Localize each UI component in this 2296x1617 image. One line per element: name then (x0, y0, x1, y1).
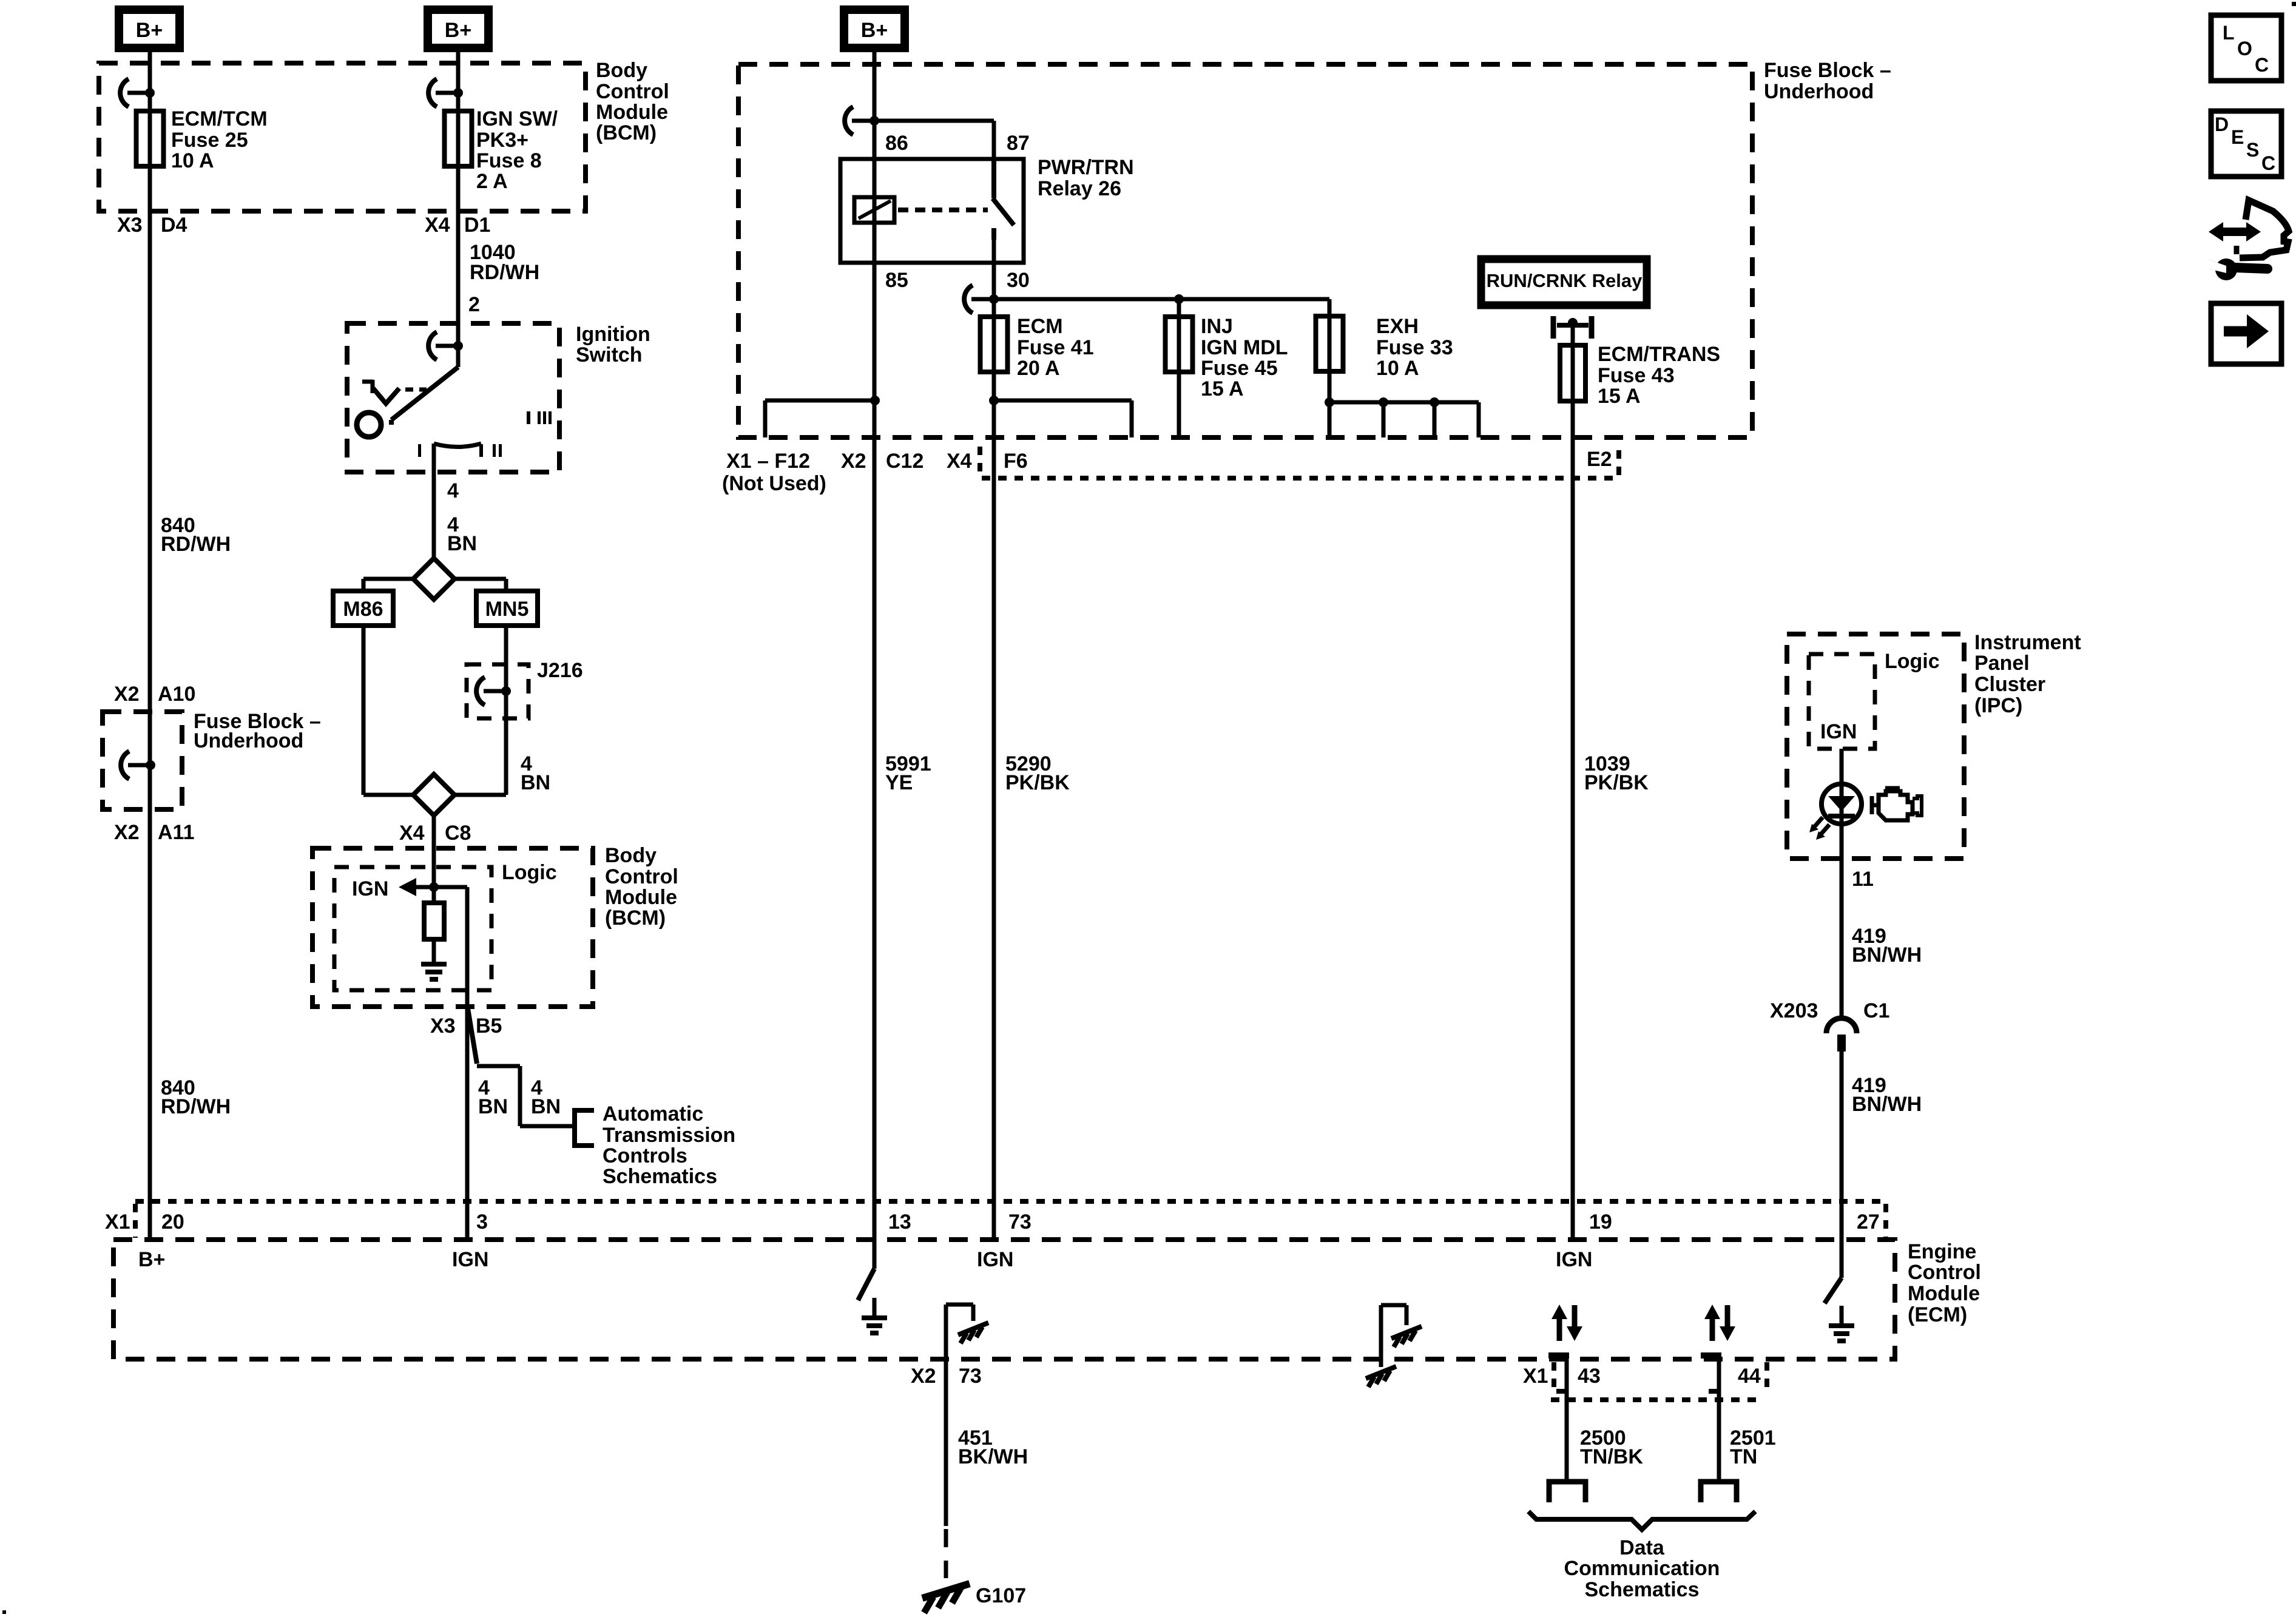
svg-text:Logic: Logic (502, 861, 557, 884)
svg-text:Control: Control (596, 80, 669, 103)
svg-text:EXH: EXH (1376, 315, 1419, 338)
svg-text:PWR/TRN: PWR/TRN (1038, 156, 1134, 179)
svg-text:10 A: 10 A (1376, 357, 1419, 380)
svg-text:10 A: 10 A (171, 149, 214, 172)
svg-text:B+: B+ (136, 19, 163, 42)
svg-text:Fuse 25: Fuse 25 (171, 129, 248, 152)
svg-text:RD/WH: RD/WH (161, 533, 231, 556)
svg-text:Underhood: Underhood (1764, 80, 1874, 103)
svg-text:IGN: IGN (977, 1248, 1013, 1271)
svg-text:X1 – F12: X1 – F12 (726, 450, 810, 473)
svg-text:E2: E2 (1587, 448, 1612, 471)
svg-text:Automatic: Automatic (603, 1102, 703, 1126)
svg-text:X203: X203 (1770, 999, 1818, 1022)
svg-text:TN: TN (1730, 1445, 1757, 1468)
svg-text:TN/BK: TN/BK (1580, 1445, 1643, 1468)
svg-text:20 A: 20 A (1017, 357, 1060, 380)
svg-text:2 A: 2 A (476, 170, 508, 193)
svg-text:Schematics: Schematics (603, 1165, 717, 1188)
svg-text:27: 27 (1857, 1210, 1880, 1234)
svg-text:X2: X2 (911, 1365, 936, 1388)
svg-text:2: 2 (468, 293, 480, 316)
svg-text:X2: X2 (841, 450, 866, 473)
svg-text:BK/WH: BK/WH (958, 1445, 1028, 1468)
svg-text:Ignition: Ignition (576, 323, 650, 346)
svg-text:Fuse 8: Fuse 8 (476, 149, 542, 172)
svg-text:43: 43 (1578, 1365, 1601, 1388)
svg-text:E: E (2231, 126, 2244, 148)
svg-text:BN: BN (478, 1095, 508, 1118)
svg-text:87: 87 (1007, 132, 1030, 155)
svg-text:73: 73 (959, 1365, 982, 1388)
svg-text:BN/WH: BN/WH (1852, 1093, 1922, 1116)
svg-text:BN: BN (521, 771, 550, 794)
svg-text:ECM: ECM (1017, 315, 1063, 338)
svg-text:S: S (2246, 139, 2259, 161)
svg-text:IGN MDL: IGN MDL (1201, 336, 1288, 359)
svg-text:X2: X2 (114, 821, 140, 844)
svg-text:D4: D4 (161, 214, 187, 237)
svg-text:(BCM): (BCM) (605, 906, 666, 930)
svg-text:L: L (2223, 22, 2235, 44)
svg-text:Module: Module (605, 886, 677, 909)
svg-text:Fuse Block –: Fuse Block – (1764, 59, 1891, 82)
svg-text:B+: B+ (861, 19, 888, 42)
svg-text:B5: B5 (476, 1014, 502, 1038)
svg-text:X4: X4 (947, 450, 972, 473)
svg-text:RD/WH: RD/WH (161, 1095, 231, 1118)
svg-text:Switch: Switch (576, 343, 643, 366)
svg-text:Panel: Panel (1974, 652, 2030, 675)
svg-text:Body: Body (605, 844, 657, 867)
svg-text:G107: G107 (976, 1584, 1026, 1607)
svg-text:Relay 26: Relay 26 (1038, 177, 1121, 200)
svg-text:YE: YE (885, 771, 913, 794)
svg-text:B+: B+ (445, 19, 471, 42)
svg-text:INJ: INJ (1201, 315, 1233, 338)
svg-text:(ECM): (ECM) (1908, 1303, 1967, 1326)
svg-text:Fuse 43: Fuse 43 (1598, 364, 1675, 387)
svg-text:11: 11 (1852, 868, 1874, 891)
svg-text:15 A: 15 A (1201, 377, 1244, 400)
svg-text:73: 73 (1008, 1210, 1032, 1234)
svg-text:IGN SW/: IGN SW/ (476, 107, 558, 130)
svg-text:D1: D1 (464, 214, 490, 237)
svg-text:Control: Control (605, 865, 678, 888)
svg-text:Engine: Engine (1908, 1240, 1976, 1263)
svg-text:(BCM): (BCM) (596, 121, 657, 144)
svg-text:Fuse 41: Fuse 41 (1017, 336, 1094, 359)
svg-text:X4: X4 (425, 214, 450, 237)
svg-text:X2: X2 (114, 683, 140, 706)
svg-text:C: C (2261, 152, 2275, 174)
svg-text:Transmission: Transmission (603, 1124, 735, 1147)
svg-text:13: 13 (888, 1210, 911, 1234)
svg-text:(Not Used): (Not Used) (722, 472, 826, 495)
svg-text:PK/BK: PK/BK (1005, 771, 1070, 794)
svg-text:MN5: MN5 (485, 598, 529, 621)
svg-text:Fuse 33: Fuse 33 (1376, 336, 1453, 359)
svg-text:85: 85 (885, 269, 908, 292)
svg-text:Underhood: Underhood (194, 729, 303, 752)
svg-text:B+: B+ (138, 1248, 165, 1271)
svg-text:Controls: Controls (603, 1144, 687, 1167)
svg-text:X1: X1 (105, 1210, 130, 1234)
svg-text:X3: X3 (117, 214, 143, 237)
svg-text:15 A: 15 A (1598, 385, 1641, 408)
svg-text:Schematics: Schematics (1585, 1578, 1700, 1601)
svg-text:X1: X1 (1523, 1365, 1548, 1388)
svg-text:4: 4 (447, 479, 459, 502)
svg-text:O: O (2237, 38, 2252, 59)
svg-text:C12: C12 (886, 450, 923, 473)
svg-text:RD/WH: RD/WH (470, 261, 539, 284)
svg-text:ECM/TRANS: ECM/TRANS (1598, 343, 1720, 366)
svg-text:D: D (2215, 113, 2229, 135)
svg-text:BN: BN (531, 1095, 561, 1118)
svg-text:A11: A11 (158, 821, 195, 844)
svg-text:X3: X3 (430, 1014, 456, 1038)
svg-text:Data: Data (1619, 1536, 1665, 1559)
svg-text:M86: M86 (343, 598, 383, 621)
svg-text:30: 30 (1007, 269, 1030, 292)
svg-text:Fuse 45: Fuse 45 (1201, 357, 1278, 380)
svg-text:PK3+: PK3+ (476, 129, 528, 152)
svg-text:IGN: IGN (352, 877, 388, 900)
svg-text:Cluster: Cluster (1974, 673, 2045, 696)
svg-text:3: 3 (476, 1210, 488, 1234)
svg-text:19: 19 (1589, 1210, 1612, 1234)
svg-text:F6: F6 (1004, 450, 1028, 473)
svg-text:RUN/CRNK Relay: RUN/CRNK Relay (1487, 270, 1643, 291)
svg-text:20: 20 (161, 1210, 184, 1234)
svg-text:(IPC): (IPC) (1974, 694, 2022, 717)
svg-text:Body: Body (596, 59, 647, 82)
svg-text:IGN: IGN (1820, 720, 1857, 743)
svg-text:J216: J216 (537, 659, 583, 682)
svg-text:44: 44 (1738, 1365, 1761, 1388)
svg-text:C1: C1 (1863, 999, 1889, 1022)
svg-text:Instrument: Instrument (1974, 631, 2081, 654)
svg-text:Communication: Communication (1564, 1557, 1720, 1580)
svg-text:Module: Module (1908, 1282, 1980, 1305)
svg-text:C: C (2255, 54, 2269, 76)
svg-text:Logic: Logic (1885, 650, 1940, 673)
svg-text:BN: BN (447, 532, 477, 555)
svg-text:IGN: IGN (1556, 1248, 1592, 1271)
svg-text:86: 86 (885, 132, 908, 155)
svg-text:IGN: IGN (452, 1248, 488, 1271)
svg-text:A10: A10 (158, 683, 195, 706)
svg-text:PK/BK: PK/BK (1584, 771, 1649, 794)
svg-text:ECM/TCM: ECM/TCM (171, 107, 268, 130)
svg-text:Control: Control (1908, 1261, 1981, 1284)
svg-text:C8: C8 (445, 822, 471, 845)
svg-text:X4: X4 (399, 822, 425, 845)
svg-text:Module: Module (596, 101, 668, 124)
svg-text:BN/WH: BN/WH (1852, 944, 1922, 967)
